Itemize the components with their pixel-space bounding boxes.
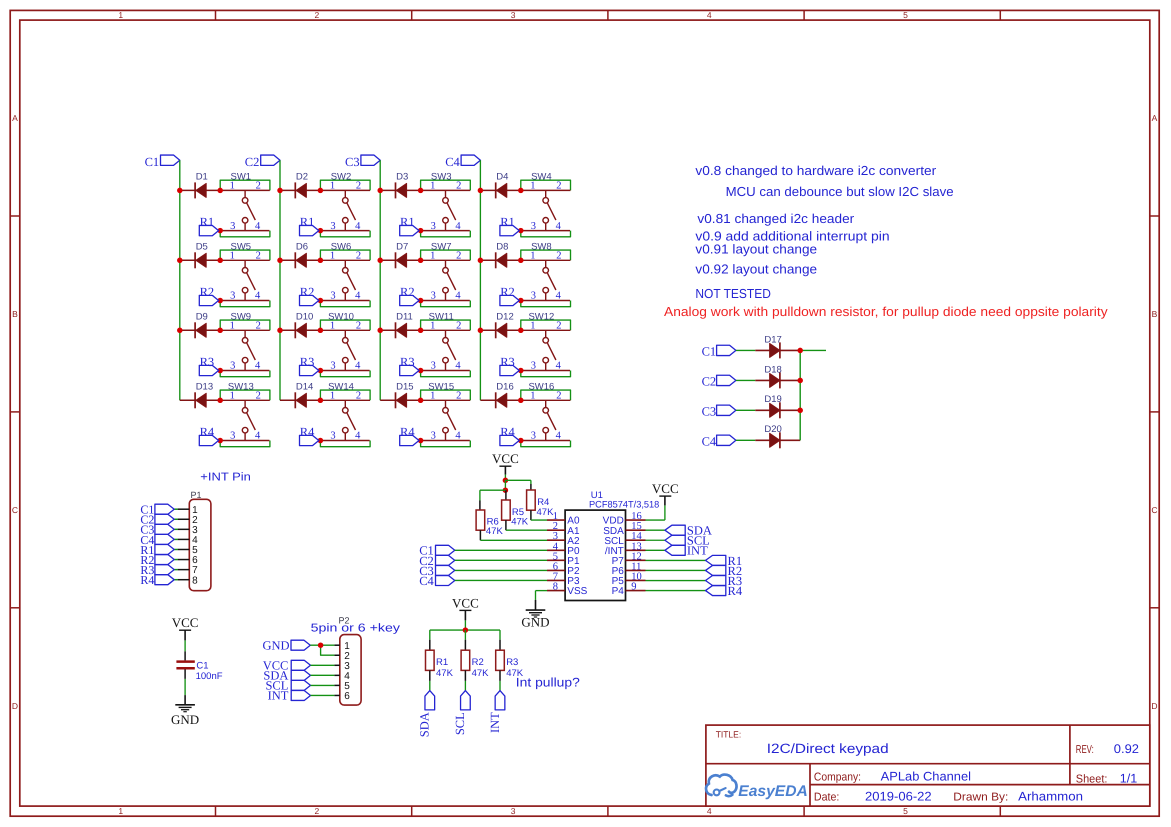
svg-text:4: 4: [556, 361, 562, 372]
junction D12/SW12 pin1: [518, 328, 524, 334]
svg-text:R3: R3: [300, 355, 315, 369]
diode D20: [764, 424, 781, 448]
wire D9 anode-cathode row: [180, 329, 220, 331]
svg-text:3: 3: [330, 431, 335, 442]
svg-text:3: 3: [531, 431, 536, 442]
net flag SDA (pullup): [418, 691, 435, 738]
svg-text:D13: D13: [196, 381, 213, 392]
wire C1 to D17: [736, 349, 755, 351]
wire D3 anode-cathode row: [380, 189, 420, 191]
switch SW14: [320, 381, 370, 441]
svg-text:1: 1: [230, 181, 235, 192]
svg-text:R1: R1: [200, 215, 215, 229]
svg-text:D2: D2: [296, 171, 308, 182]
svg-text:A: A: [1152, 113, 1158, 123]
svg-text:3: 3: [230, 361, 235, 372]
diode D5: [195, 241, 208, 268]
svg-text:1: 1: [530, 391, 535, 402]
svg-text:1: 1: [530, 251, 535, 262]
U1 pin 8 (VSS): [547, 582, 588, 598]
svg-text:2: 2: [315, 10, 320, 20]
junction SW1 pin3 / net R1: [217, 228, 223, 234]
wire VCC to C1: [184, 630, 186, 660]
svg-text:4: 4: [556, 291, 562, 302]
wire D7 anode-cathode row: [380, 259, 420, 261]
wire SW4 pins 3-4 loop: [521, 231, 571, 237]
net flag R4 (U1 right): [706, 584, 743, 598]
svg-text:R2: R2: [200, 285, 215, 299]
junction column C2 row 3: [277, 328, 283, 334]
wire VCC to P2 pin 3: [311, 664, 335, 666]
note v0.92: [695, 262, 817, 277]
wire C4 to U1 pin 7: [455, 579, 547, 581]
net flag R4 (SW14 row net): [300, 425, 319, 446]
net flag C3 (diode combiner): [702, 405, 736, 419]
junction D15/SW15 pin1: [418, 398, 424, 404]
wire SW3 pins 1-2 loop: [421, 180, 471, 190]
junction SW15 pin3 / net R4: [418, 438, 424, 444]
switch SW16: [521, 381, 571, 441]
wire SW5 pins 3-4 loop: [220, 301, 270, 307]
svg-text:1: 1: [230, 251, 235, 262]
switch SW1: [220, 171, 270, 231]
svg-text:D7: D7: [396, 241, 408, 252]
svg-text:Company:: Company:: [814, 772, 861, 784]
svg-text:5: 5: [903, 806, 908, 816]
svg-text:D5: D5: [196, 241, 208, 252]
net flag C2 at P1 pin 2: [140, 513, 177, 527]
diode D13: [195, 381, 213, 408]
svg-text:D11: D11: [396, 311, 413, 322]
junction SW3 pin3 / net R1: [418, 228, 424, 234]
switch SW12: [521, 311, 571, 371]
title block: [706, 725, 1150, 806]
wire pullup rail: [430, 629, 500, 631]
company: [814, 770, 971, 784]
wire D14 anode-cathode row: [280, 399, 320, 401]
junction SW6 pin3 / net R2: [318, 298, 324, 304]
junction D16/SW16 pin1: [518, 398, 524, 404]
diode D2: [295, 171, 308, 198]
svg-text:3: 3: [531, 291, 536, 302]
note NOT TESTED: [695, 286, 771, 301]
junction SW10 pin3 / net R3: [318, 368, 324, 374]
svg-text:C3: C3: [345, 155, 360, 169]
junction column C1 row 1: [177, 188, 183, 194]
wire C2 to D18: [736, 379, 755, 381]
net flag R2 (SW6 row net): [300, 285, 319, 306]
junction SW14 pin3 / net R4: [318, 438, 324, 444]
wire SW14 pins 1-2 loop: [320, 390, 370, 400]
wire D1 anode-cathode row: [180, 189, 220, 191]
svg-text:R4: R4: [200, 425, 215, 439]
svg-text:R3: R3: [500, 355, 515, 369]
diode D16: [496, 381, 514, 408]
P2 pin 5: [334, 681, 350, 692]
wire SW8 pins 3-4 loop: [521, 301, 571, 307]
capacitor C1 100nF: [176, 660, 222, 681]
power VCC (C1 cap): [172, 615, 199, 630]
diode D4: [496, 171, 509, 198]
wire D8 anode-cathode row: [480, 259, 520, 261]
diode D15: [396, 381, 414, 408]
svg-text:2: 2: [556, 321, 561, 332]
wire D4 anode-cathode row: [480, 189, 520, 191]
net flag R3 (SW12 row net): [500, 355, 519, 376]
svg-text:Int pullup?: Int pullup?: [516, 676, 580, 690]
junction D13/SW13 pin1: [217, 398, 223, 404]
wire column C4: [479, 160, 481, 400]
svg-text:2: 2: [356, 321, 361, 332]
wire VCC to rail: [464, 610, 466, 630]
net flag R1 at P1 pin 5: [140, 543, 177, 557]
connector P1: [189, 490, 211, 591]
wire SW1 pins 3-4 loop: [220, 231, 270, 237]
wire D10 anode-cathode row: [280, 329, 320, 331]
net flag SCL (P2): [265, 679, 310, 693]
switch SW4: [521, 171, 571, 231]
svg-text:4: 4: [455, 291, 461, 302]
svg-text:4: 4: [355, 221, 361, 232]
ground GND (C1): [171, 705, 199, 727]
note Int pullup?: [516, 676, 580, 690]
wire D11 anode-cathode row: [380, 329, 420, 331]
wire U1 pin 9 to R4 flag: [646, 590, 706, 592]
net flag R4 (SW13 row net): [199, 425, 218, 446]
junction D10/SW10 pin1: [318, 328, 324, 334]
diode D1: [195, 171, 208, 198]
diode D10: [295, 311, 313, 338]
wire column C2: [279, 160, 281, 400]
P2 pin 1: [334, 641, 350, 652]
net flag C2 (diode combiner): [702, 375, 736, 389]
svg-text:4: 4: [556, 221, 562, 232]
junction D7/SW7 pin1: [418, 258, 424, 264]
svg-text:REV:: REV:: [1076, 744, 1094, 756]
junction SW7 pin3 / net R2: [418, 298, 424, 304]
svg-text:Sheet:: Sheet:: [1076, 774, 1108, 786]
svg-text:R4: R4: [500, 425, 515, 439]
junction column C4 row 1: [478, 188, 484, 194]
svg-text:R4: R4: [140, 573, 154, 587]
switch SW10: [320, 311, 370, 371]
svg-text:D4: D4: [496, 171, 508, 182]
svg-text:D: D: [1151, 701, 1157, 711]
net flag R4 at P1 pin 8: [140, 573, 177, 587]
junction SW9 pin3 / net R3: [217, 368, 223, 374]
resistor R3 47K: [496, 650, 524, 679]
net flag R2 (SW7 row net): [400, 285, 419, 306]
wire U1 pin 15 to SDA flag: [646, 529, 665, 531]
note analog pulldown (red): [664, 304, 1108, 319]
sheet: [1076, 771, 1138, 785]
svg-text:VCC: VCC: [172, 615, 199, 630]
svg-text:3: 3: [511, 806, 516, 816]
svg-text:R1: R1: [400, 215, 415, 229]
wire U1 pin 14 to SCL flag: [646, 539, 665, 541]
switch SW8: [521, 241, 571, 301]
wire SDA to P2 pin 4: [311, 674, 335, 676]
switch SW6: [320, 241, 370, 301]
net flag C4 (U1 left): [419, 574, 455, 588]
net flag R3 at P1 pin 7: [140, 563, 177, 577]
svg-text:3: 3: [431, 291, 436, 302]
wire D13 anode-cathode row: [180, 399, 220, 401]
junction D11/SW11 pin1: [418, 328, 424, 334]
svg-text:D14: D14: [296, 381, 313, 392]
svg-text:GND: GND: [521, 615, 549, 630]
svg-text:D: D: [12, 701, 18, 711]
svg-text:Analog work with pulldown resi: Analog work with pulldown resistor, for …: [664, 304, 1108, 319]
net flag R3 (SW10 row net): [300, 355, 319, 376]
wire SW7 pins 3-4 loop: [421, 301, 471, 307]
svg-text:4: 4: [255, 431, 261, 442]
note v0.81: [697, 211, 854, 226]
svg-text:3: 3: [330, 221, 335, 232]
wire SW9 pins 1-2 loop: [220, 320, 270, 330]
U1 pin 1 (A0): [547, 511, 580, 527]
svg-text:R1: R1: [436, 657, 448, 668]
U1 pin 6 (P2): [547, 561, 580, 577]
net flag C3 (keypad column top): [345, 155, 380, 169]
wire C1 to GND: [184, 669, 186, 704]
net flag INT (P2): [268, 689, 311, 703]
net flag R2 (SW5 row net): [199, 285, 218, 306]
wire GND branch to P2 pin2: [321, 645, 335, 655]
net flag C4 (diode combiner): [702, 435, 736, 449]
svg-text:D3: D3: [396, 171, 408, 182]
wire SW15 pins 1-2 loop: [421, 390, 471, 400]
svg-text:VCC: VCC: [452, 595, 479, 610]
P1 pin 3: [178, 525, 199, 536]
svg-text:VSS: VSS: [567, 586, 587, 597]
svg-text:2: 2: [556, 251, 561, 262]
wire node A to R4 top: [505, 480, 531, 490]
junction D14/SW14 pin1: [318, 398, 324, 404]
wire R5 bottom to U1 pin2: [506, 520, 547, 530]
svg-text:2: 2: [356, 391, 361, 402]
EasyEDA logo: [706, 775, 808, 800]
switch SW5: [220, 241, 270, 301]
wire D12 anode-cathode row: [480, 329, 520, 331]
svg-text:v0.81 changed i2c header: v0.81 changed i2c header: [697, 211, 854, 226]
power VCC (pullups): [452, 595, 479, 610]
svg-text:C1: C1: [145, 155, 160, 169]
svg-text:1: 1: [230, 321, 235, 332]
U1 pin 2 (A1): [547, 521, 580, 537]
svg-text:2: 2: [256, 391, 261, 402]
svg-text:APLab Channel: APLab Channel: [881, 770, 971, 784]
svg-text:2: 2: [315, 806, 320, 816]
junction SW8 pin3 / net R2: [518, 298, 524, 304]
net flag C1 at P1 pin 1: [140, 503, 177, 517]
svg-text:3: 3: [531, 221, 536, 232]
junction SW12 pin3 / net R3: [518, 368, 524, 374]
wire C4 to D20: [736, 439, 755, 441]
junction column C1 row 3: [177, 328, 183, 334]
switch SW13: [220, 381, 270, 441]
svg-text:2: 2: [556, 181, 561, 192]
junction D17 cathode: [797, 348, 803, 354]
junction SW2 pin3 / net R1: [318, 228, 324, 234]
net flag R2 at P1 pin 6: [140, 553, 177, 567]
U1 pin 14 (SCL): [604, 531, 645, 547]
net flag R3 (SW11 row net): [400, 355, 419, 376]
svg-text:I2C/Direct keypad: I2C/Direct keypad: [767, 741, 889, 756]
wire D18 row: [755, 379, 800, 381]
svg-text:2: 2: [456, 321, 461, 332]
svg-text:R3: R3: [400, 355, 415, 369]
svg-text:SCL: SCL: [453, 712, 467, 735]
wire SW16 pins 3-4 loop: [521, 441, 571, 447]
P1 pin 6: [178, 555, 199, 566]
svg-text:8: 8: [553, 582, 558, 593]
junction SW16 pin3 / net R4: [518, 438, 524, 444]
svg-text:R1: R1: [300, 215, 315, 229]
svg-text:C2: C2: [245, 155, 260, 169]
junction D5/SW5 pin1: [217, 258, 223, 264]
svg-text:C1: C1: [702, 345, 717, 359]
junction SW13 pin3 / net R4: [217, 438, 223, 444]
svg-text:R2: R2: [300, 285, 315, 299]
date / drawn by: [814, 789, 1083, 803]
junction column C2 row 2: [277, 258, 283, 264]
wire R4 bottom to U1 pin1: [531, 510, 547, 520]
net flag C2 (U1 left): [419, 554, 455, 568]
svg-text:GND: GND: [171, 712, 199, 727]
junction D18 cathode: [797, 378, 803, 384]
svg-text:4: 4: [355, 431, 361, 442]
svg-text:47K: 47K: [537, 507, 555, 518]
wire SW8 pins 1-2 loop: [521, 250, 571, 260]
wire SW10 pins 3-4 loop: [320, 371, 370, 377]
svg-text:R4: R4: [400, 425, 415, 439]
wire SW4 pins 1-2 loop: [521, 180, 571, 190]
junction D19 cathode: [797, 408, 803, 414]
P2 pin 4: [334, 671, 350, 682]
junction column C4 row 2: [478, 258, 484, 264]
svg-text:VCC: VCC: [652, 481, 679, 496]
svg-text:5: 5: [903, 10, 908, 20]
resistor R4 47K: [527, 490, 554, 518]
svg-text:2: 2: [256, 251, 261, 262]
wire rail to R2: [464, 630, 466, 650]
net flag R4 (SW15 row net): [400, 425, 419, 446]
net flag C3 at P1 pin 3: [140, 523, 177, 537]
svg-text:C2: C2: [702, 375, 717, 389]
svg-text:R1: R1: [500, 215, 515, 229]
wire SW10 pins 1-2 loop: [320, 320, 370, 330]
U1 pin 4 (P0): [547, 541, 580, 557]
P1 pin 5: [178, 545, 199, 556]
wire U1 pin 13 to INT flag: [646, 549, 665, 551]
wire column C1: [179, 160, 181, 400]
svg-text:47K: 47K: [486, 526, 504, 537]
net flag C4 (keypad column top): [445, 155, 480, 169]
diode D3: [396, 171, 409, 198]
svg-text:3: 3: [431, 431, 436, 442]
wire node A to node B: [504, 480, 506, 490]
IC U1 PCF8574T: [565, 490, 659, 601]
P1 pin 4: [178, 535, 199, 546]
junction column C3 row 1: [377, 188, 383, 194]
wire node B to R5 top: [505, 490, 507, 500]
junction D8/SW8 pin1: [518, 258, 524, 264]
svg-text:100nF: 100nF: [196, 671, 223, 682]
P1 pin 7: [178, 565, 199, 576]
svg-text:1: 1: [430, 321, 435, 332]
svg-text:4: 4: [255, 361, 261, 372]
net flag R1 (SW2 row net): [300, 215, 319, 236]
svg-text:1/1: 1/1: [1120, 771, 1138, 785]
U1 pin 3 (A2): [547, 531, 580, 547]
svg-text:Drawn By:: Drawn By:: [953, 791, 1008, 803]
junction GND branch: [318, 642, 324, 648]
net flag R1 (U1 right): [706, 554, 743, 568]
svg-text:1: 1: [330, 321, 335, 332]
svg-text:D9: D9: [196, 311, 208, 322]
resistor R2 47K: [461, 650, 489, 679]
wire node B to R6 top: [480, 490, 506, 510]
svg-text:3: 3: [230, 221, 235, 232]
svg-text:5pin or 6 +key: 5pin or 6 +key: [311, 623, 401, 635]
svg-text:Date:: Date:: [814, 791, 840, 803]
svg-text:D15: D15: [396, 381, 413, 392]
net flag R2 (SW8 row net): [500, 285, 519, 306]
junction D2/SW2 pin1: [318, 188, 324, 194]
svg-text:NOT TESTED: NOT TESTED: [695, 286, 771, 301]
P1 pin 1: [178, 505, 199, 516]
svg-text:3: 3: [230, 291, 235, 302]
svg-text:INT: INT: [488, 712, 502, 733]
P2 pin 3: [334, 661, 350, 672]
diode D8: [496, 241, 509, 268]
wire D6 anode-cathode row: [280, 259, 320, 261]
diode D12: [496, 311, 514, 338]
svg-text:4: 4: [355, 361, 361, 372]
switch SW3: [421, 171, 471, 231]
svg-text:1: 1: [118, 10, 123, 20]
wire SW6 pins 1-2 loop: [320, 250, 370, 260]
net flag C3 (U1 left): [419, 564, 455, 578]
svg-text:4: 4: [455, 431, 461, 442]
junction SW4 pin3 / net R1: [518, 228, 524, 234]
svg-text:v0.92 layout change: v0.92 layout change: [695, 262, 817, 277]
wire R1 to SDA flag: [429, 670, 431, 690]
svg-text:R2: R2: [472, 657, 484, 668]
svg-text:R3: R3: [506, 657, 518, 668]
junction pullup rail: [463, 627, 469, 633]
U1 pin 5 (P1): [547, 551, 580, 567]
junction SW5 pin3 / net R2: [217, 298, 223, 304]
U1 pin 16 (VDD): [603, 511, 646, 527]
svg-text:R2: R2: [500, 285, 515, 299]
resistor R5 47K: [502, 500, 529, 528]
svg-text:4: 4: [556, 431, 562, 442]
wire U1 pin 12 to R1 flag: [646, 559, 706, 561]
resistor R1 47K: [426, 650, 454, 679]
wire combiner output: [800, 349, 826, 351]
junction column C3 row 2: [377, 258, 383, 264]
svg-text:1: 1: [430, 181, 435, 192]
svg-text:MCU can debounce but slow I2C: MCU can debounce but slow I2C slave: [726, 184, 954, 199]
svg-text:3: 3: [511, 10, 516, 20]
wire SW3 pins 3-4 loop: [421, 231, 471, 237]
svg-text:4: 4: [455, 361, 461, 372]
svg-text:1: 1: [530, 321, 535, 332]
svg-text:P4: P4: [612, 586, 625, 597]
wire SW2 pins 1-2 loop: [320, 180, 370, 190]
